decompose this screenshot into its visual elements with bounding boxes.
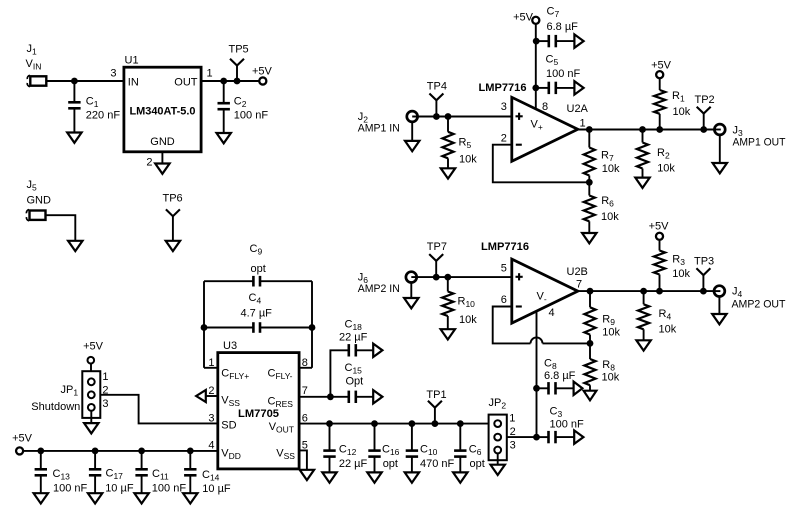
svg-text:TP3: TP3 <box>694 256 714 268</box>
regulator U1 LM340AT-5.0 <box>110 54 212 168</box>
ground R8 <box>584 391 597 401</box>
svg-text:LM340AT-5.0: LM340AT-5.0 <box>130 106 196 118</box>
connector J1 (VIN) <box>26 43 47 87</box>
ground U3 pin 2 (sideways left) <box>196 390 206 402</box>
svg-text:100 nF: 100 nF <box>152 483 187 495</box>
ground U3 pin 5 <box>300 470 314 480</box>
power +5V at bottom rail <box>12 433 33 455</box>
wire J2 to ground <box>411 122 413 141</box>
svg-text:+5V: +5V <box>83 340 104 352</box>
ground R10 <box>441 329 455 339</box>
test point TP7 <box>427 241 447 277</box>
wire U1 OUT to +5V <box>201 80 259 82</box>
svg-text:2: 2 <box>102 385 108 397</box>
svg-text:GND: GND <box>150 136 175 148</box>
svg-text:4: 4 <box>549 307 555 319</box>
svg-text:10k: 10k <box>601 211 619 223</box>
capacitor C11 100 nF <box>135 451 186 495</box>
wire C4 loop left vertical <box>203 281 205 368</box>
node R4 junction <box>640 288 647 295</box>
wire U2A output <box>578 129 715 131</box>
capacitor C2 100 nF <box>218 81 269 133</box>
connector J4 (AMP2 OUT) <box>714 286 786 311</box>
power +5V at U1 output <box>252 66 273 85</box>
capacitor C16 opt <box>368 424 399 473</box>
ground C17 <box>88 493 102 503</box>
wire U3 pin 6 VOUT rail <box>299 423 489 425</box>
svg-text:10k: 10k <box>459 314 477 326</box>
connector J6 (AMP2 IN) <box>358 272 417 296</box>
ground J2 <box>405 141 419 151</box>
capacitor C17 10 uF <box>89 451 134 495</box>
svg-text:LMP7716: LMP7716 <box>481 241 529 253</box>
resistor R5 10k <box>442 117 477 169</box>
node R1 junction <box>656 126 663 133</box>
node R7 top junction <box>586 126 593 133</box>
svg-text:100 nF: 100 nF <box>53 483 88 495</box>
test point TP4 <box>427 80 447 116</box>
capacitor C8 6.8 uF <box>537 358 576 395</box>
wire J6 to ground <box>410 282 412 298</box>
svg-text:AMP1 IN: AMP1 IN <box>358 123 400 135</box>
svg-text:100 nF: 100 nF <box>550 419 585 431</box>
resistor R1 10k <box>654 78 691 130</box>
node C3 junction <box>533 434 540 441</box>
svg-text:4: 4 <box>208 439 214 451</box>
test point TP5 <box>229 44 249 82</box>
node C13 junction <box>37 448 44 455</box>
svg-text:+5V: +5V <box>651 59 672 71</box>
ground JP1 <box>84 423 98 433</box>
resistor R3 10k <box>654 240 691 292</box>
power +5V for U2A supply <box>513 12 539 24</box>
svg-text:6.8 µF: 6.8 µF <box>544 370 576 382</box>
capacitor C5 100 nF <box>536 54 581 95</box>
svg-text:Shutdown: Shutdown <box>31 401 80 413</box>
node C17 junction <box>92 448 99 455</box>
svg-text:SD: SD <box>221 420 236 432</box>
ground C1 <box>67 133 81 143</box>
svg-text:100 nF: 100 nF <box>546 68 581 80</box>
node TP1 junction <box>432 420 439 427</box>
svg-text:+5V: +5V <box>12 433 33 445</box>
capacitor C13 100 nF <box>35 451 88 495</box>
wire C4 loop right vertical <box>311 281 313 368</box>
wire J5 to ground <box>46 215 76 241</box>
svg-text:TP7: TP7 <box>427 241 447 253</box>
wire U3 pin 1 stub <box>204 367 218 369</box>
svg-text:7: 7 <box>302 385 308 397</box>
svg-text:3: 3 <box>510 440 516 452</box>
svg-text:opt: opt <box>383 458 398 470</box>
capacitor C14 10 uF <box>184 451 231 495</box>
wire C18 branch <box>330 350 348 397</box>
ground C5 (sideways) <box>574 81 583 94</box>
svg-text:AMP2 IN: AMP2 IN <box>358 283 400 295</box>
power +5V for R1 <box>651 59 672 78</box>
node TP2 junction <box>700 126 707 133</box>
svg-text:opt: opt <box>470 458 485 470</box>
connector J2 (AMP1 IN) <box>358 111 418 135</box>
svg-text:TP2: TP2 <box>695 94 715 106</box>
ground C3 (sideways) <box>574 430 583 443</box>
svg-text:1: 1 <box>580 118 586 130</box>
wire U3 pin 2 stub <box>206 395 218 397</box>
ground C6 <box>453 472 467 482</box>
svg-text:10k: 10k <box>602 327 620 339</box>
svg-text:TP5: TP5 <box>229 44 249 56</box>
capacitor C12 22 uF <box>323 424 367 473</box>
node C4 left junction <box>201 324 208 331</box>
svg-text:2: 2 <box>146 157 152 169</box>
node TP3 junction <box>700 288 707 295</box>
resistor R10 10k <box>442 277 477 329</box>
wire J2 to U2A +input <box>412 116 512 118</box>
test point TP2 <box>695 94 715 130</box>
svg-text:1: 1 <box>102 371 108 383</box>
ground R5 <box>441 168 455 178</box>
ground C16 <box>367 472 381 482</box>
wire U2B pin 4 V- rail <box>536 312 538 437</box>
resistor R7 10k <box>584 130 620 183</box>
svg-text:10k: 10k <box>459 154 477 166</box>
ground C10 <box>405 472 419 482</box>
wire JP2 pin 2 to V- node <box>507 436 537 438</box>
node C5 junction <box>532 85 539 92</box>
svg-text:10k: 10k <box>659 324 677 336</box>
node C11 junction <box>138 448 145 455</box>
capacitor C1 220 nF <box>68 81 120 133</box>
node R10 junction <box>444 274 451 281</box>
power +5V for R3 <box>649 220 670 240</box>
svg-text:U3: U3 <box>223 340 237 352</box>
wire U2A feedback pin 2 loop <box>493 145 590 183</box>
wire J1 to U1 IN <box>46 80 124 82</box>
ground C7 (sideways) <box>574 34 583 47</box>
svg-text:opt: opt <box>251 263 266 275</box>
svg-text:4.7 µF: 4.7 µF <box>241 308 273 320</box>
capacitor C7 6.8 uF <box>536 6 578 48</box>
wire J3 to ground <box>719 135 721 163</box>
ground R2 <box>635 178 649 188</box>
wire U2B output <box>578 290 714 292</box>
wire C9 top loop <box>204 280 253 282</box>
node C15/C18 junction <box>327 393 334 400</box>
capacitor C4 4.7 uF <box>241 292 273 333</box>
node TP4 junction <box>433 113 440 120</box>
svg-text:6: 6 <box>501 294 507 306</box>
node C4 right junction <box>309 324 316 331</box>
op-amp U2A LMP7716 <box>479 82 589 161</box>
wire U3 pin 7 CRES <box>299 396 349 398</box>
capacitor C3 100 nF <box>537 406 585 444</box>
svg-text:U2A: U2A <box>567 103 589 115</box>
svg-text:1: 1 <box>208 357 214 369</box>
ground C8 (sideways) <box>574 382 583 395</box>
capacitor C9 opt <box>250 243 266 287</box>
resistor R4 10k <box>638 291 677 340</box>
wire U3 pin 5 stub <box>299 450 307 469</box>
svg-text:AMP1 OUT: AMP1 OUT <box>733 137 786 149</box>
svg-text:6: 6 <box>302 412 308 424</box>
svg-text:10k: 10k <box>672 268 690 280</box>
node TP5 junction <box>234 78 241 85</box>
svg-text:8: 8 <box>302 357 308 369</box>
svg-text:+5V: +5V <box>649 220 670 232</box>
jumper JP2 <box>489 397 516 460</box>
node TP7 junction <box>433 274 440 281</box>
svg-text:GND: GND <box>27 195 52 207</box>
svg-text:OUT: OUT <box>174 76 198 88</box>
svg-text:Opt: Opt <box>346 375 364 387</box>
svg-text:6.8 µF: 6.8 µF <box>547 21 579 33</box>
svg-text:TP1: TP1 <box>426 389 446 401</box>
svg-text:3: 3 <box>110 68 116 80</box>
wire +5V rail to U3 pin 4 <box>23 450 218 452</box>
node C6 junction <box>457 420 464 427</box>
node C16 junction <box>371 420 378 427</box>
ground J6 <box>404 298 418 308</box>
svg-text:10k: 10k <box>602 163 620 175</box>
svg-text:10k: 10k <box>602 372 620 384</box>
node C10 junction <box>409 420 416 427</box>
node R9 top junction <box>587 288 594 295</box>
test point TP6 <box>163 193 183 241</box>
ground C13 <box>34 493 48 503</box>
svg-text:LM7705: LM7705 <box>238 408 279 420</box>
ground J5 <box>68 241 82 251</box>
node VIN junction <box>71 78 78 85</box>
test point TP1 <box>426 389 446 424</box>
node C8 junction <box>533 385 540 392</box>
svg-text:3: 3 <box>102 398 108 410</box>
ground C14 <box>183 493 197 503</box>
node R5 junction <box>445 113 452 120</box>
svg-text:3: 3 <box>501 101 507 113</box>
ground U1 pin 2 <box>155 164 169 174</box>
svg-text:10 µF: 10 µF <box>105 483 134 495</box>
wire J6 to U2B +input <box>411 276 512 278</box>
svg-text:TP4: TP4 <box>427 80 447 92</box>
svg-text:100 nF: 100 nF <box>234 110 269 122</box>
node C2 junction <box>220 78 227 85</box>
capacitor C15 Opt <box>345 362 374 403</box>
ground C2 <box>217 133 231 143</box>
wire JP2 to ground <box>497 453 499 464</box>
ground C11 <box>134 493 148 503</box>
ground R4 <box>636 340 650 350</box>
capacitor C18 22 uF <box>339 319 373 357</box>
svg-text:1: 1 <box>207 68 213 80</box>
resistor R8 10k <box>584 343 619 390</box>
charge pump U3 LM7705 <box>208 340 308 469</box>
svg-text:IN: IN <box>128 76 139 88</box>
svg-text:5: 5 <box>501 263 507 275</box>
node R2 junction <box>639 126 646 133</box>
wire U2B feedback pin 6 loop with hop <box>493 307 531 344</box>
resistor R6 10k <box>584 182 620 233</box>
connector J5 (GND) <box>26 179 51 221</box>
wire U3 pin 8 stub <box>299 367 312 369</box>
svg-text:1: 1 <box>509 413 515 425</box>
wire J4 to ground <box>718 296 720 314</box>
svg-text:10k: 10k <box>657 163 675 175</box>
test point TP3 <box>694 256 714 292</box>
svg-text:LMP7716: LMP7716 <box>479 82 527 94</box>
ground C12 <box>322 472 336 482</box>
wire C4 row <box>204 327 253 329</box>
svg-text:TP6: TP6 <box>163 193 183 205</box>
svg-text:+5V: +5V <box>513 12 534 24</box>
ground J3 <box>713 163 727 173</box>
svg-text:AMP2 OUT: AMP2 OUT <box>732 299 786 311</box>
node R7/R6 junction <box>586 179 593 186</box>
svg-text:220 nF: 220 nF <box>86 110 121 122</box>
svg-text:22 µF: 22 µF <box>339 458 368 470</box>
svg-text:2: 2 <box>501 133 507 145</box>
node R9/R8 junction <box>587 340 594 347</box>
ground TP6 <box>166 241 180 251</box>
capacitor C6 opt <box>454 424 485 473</box>
ground J4 <box>712 314 726 324</box>
svg-text:22 µF: 22 µF <box>339 332 368 344</box>
svg-text:10k: 10k <box>673 106 691 118</box>
resistor R9 10k <box>584 291 620 343</box>
op-amp U2B LMP7716 <box>481 241 588 323</box>
connector J3 (AMP1 OUT) <box>714 124 785 148</box>
svg-text:+5V: +5V <box>252 66 273 78</box>
ground JP2 <box>491 465 505 475</box>
node R3 junction <box>656 288 663 295</box>
wire JP1 to ground <box>90 411 92 423</box>
ground C18 (sideways) <box>373 344 382 357</box>
svg-text:8: 8 <box>542 101 548 113</box>
wire +5V to U2A pin 8 <box>535 24 537 110</box>
node C7 junction <box>533 38 540 45</box>
capacitor C10 470 nF <box>406 424 455 473</box>
wire U3 pin 3 SD to JP1 <box>100 395 218 424</box>
ground C15 (sideways) <box>373 390 382 403</box>
jumper JP1 Shutdown <box>31 340 108 418</box>
svg-text:U1: U1 <box>125 54 139 66</box>
ground R6 <box>582 233 596 243</box>
node C14 junction <box>187 448 194 455</box>
wire U1 GND pin 2 <box>161 152 163 164</box>
svg-text:470 nF: 470 nF <box>420 458 455 470</box>
resistor R2 10k <box>637 130 676 178</box>
svg-text:7: 7 <box>576 279 582 291</box>
node C12 junction <box>326 420 333 427</box>
svg-text:U2B: U2B <box>567 266 588 278</box>
svg-text:10 µF: 10 µF <box>202 483 231 495</box>
